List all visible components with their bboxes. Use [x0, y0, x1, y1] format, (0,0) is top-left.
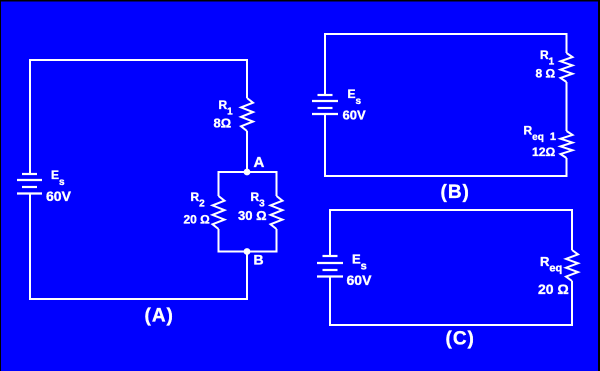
battery ES circuit C [317, 256, 343, 277]
wire A bottom [29, 252, 247, 299]
resistor R2 [213, 196, 225, 229]
svg-text:B: B [254, 252, 264, 268]
svg-text:60V: 60V [343, 108, 366, 123]
svg-text:30 Ω: 30 Ω [238, 208, 267, 223]
svg-text:(B): (B) [441, 182, 470, 203]
svg-text:8Ω: 8Ω [214, 116, 232, 131]
wire C left lower [329, 277, 331, 326]
resistor R1 (A) [241, 98, 253, 131]
wire A: parallel box bottom rail [219, 229, 277, 252]
wire A: parallel box top rail [219, 172, 277, 196]
wire A: R1 bottom to node A [246, 131, 248, 172]
resistor R1 (B) [561, 53, 573, 82]
resistor Req (C) [566, 250, 578, 281]
wire B left lower [324, 114, 326, 176]
svg-text:60V: 60V [46, 188, 72, 204]
black frame right [598, 0, 600, 371]
node A junction dot [244, 169, 251, 176]
svg-text:60V: 60V [347, 272, 373, 288]
svg-text:12Ω: 12Ω [532, 145, 556, 159]
black frame left [0, 0, 1, 371]
svg-text:20 Ω: 20 Ω [184, 213, 211, 227]
wire C top [330, 210, 572, 255]
wire B top [325, 34, 567, 94]
svg-text:8 Ω: 8 Ω [536, 67, 556, 81]
battery ES circuit A [17, 174, 42, 194]
svg-text:(A): (A) [145, 306, 174, 327]
wire C bottom [329, 281, 572, 325]
resistor Req1 (B) [561, 131, 573, 158]
wire A top [30, 60, 247, 173]
black frame top [0, 0, 600, 2]
wire B bottom [324, 158, 567, 176]
node B junction dot [244, 248, 251, 255]
svg-text:20 Ω: 20 Ω [538, 281, 569, 297]
wire A left lower [29, 194, 31, 300]
battery ES circuit B [312, 95, 338, 114]
wire B right middle [566, 82, 568, 131]
resistor R3 [271, 196, 283, 229]
svg-text:A: A [254, 154, 265, 171]
svg-text:(C): (C) [446, 329, 475, 350]
